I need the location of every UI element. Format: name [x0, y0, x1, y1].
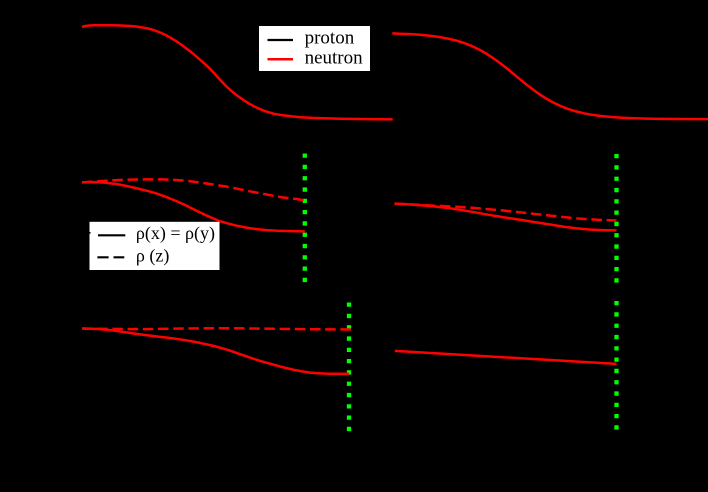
bottom-left dashed curve	[82, 328, 352, 329]
top-right panel neutron curve	[392, 33, 708, 119]
middle-right dashed curve	[395, 204, 617, 221]
svg-text:neutron: neutron	[305, 48, 364, 69]
legend 2 box (rho lines)	[90, 222, 220, 270]
bottom-left solid curve	[82, 328, 349, 374]
svg-text:ρ(x) = ρ(y): ρ(x) = ρ(y)	[136, 223, 215, 244]
legend 2 dashed line sample	[97, 256, 124, 258]
legend 1 box (proton/neutron)	[259, 26, 370, 71]
top-left panel neutron curve	[82, 25, 393, 119]
bottom-left green dotted vertical line	[347, 303, 351, 432]
middle-left dashed rho(z) curve	[82, 179, 305, 200]
legend 1 proton line sample	[268, 39, 294, 41]
middle-left green dotted vertical line	[303, 154, 307, 285]
legend 2 axis tick remnant	[84, 232, 91, 234]
middle-right solid curve	[395, 204, 617, 231]
middle-right green dotted vertical line	[614, 154, 618, 285]
svg-text:ρ (z): ρ (z)	[136, 245, 169, 266]
bottom-right green dotted vertical line	[614, 301, 618, 432]
bottom-right solid curve	[395, 351, 617, 364]
legend 1 neutron line sample	[268, 58, 294, 61]
svg-text:proton: proton	[305, 27, 355, 48]
legend 2 solid line sample	[98, 234, 125, 236]
middle-left solid rho(x)=rho(y) curve	[82, 182, 305, 231]
